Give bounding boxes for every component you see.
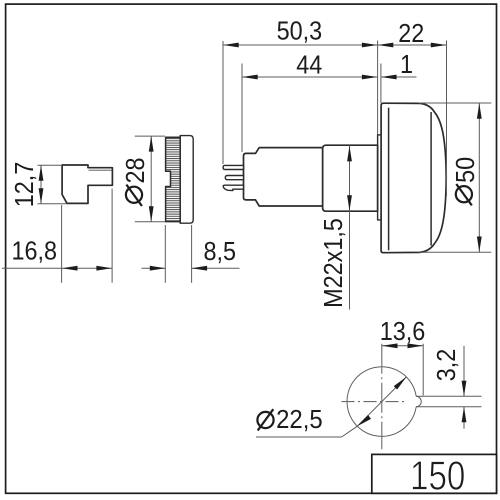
Ø22,5 diameter line <box>357 377 406 426</box>
arrow Ø28 down <box>149 206 154 222</box>
dimension 8,5 extension left <box>164 225 166 283</box>
extension line panel plane x=377.6 <box>377 41 379 135</box>
keyway slot end arc <box>416 396 421 407</box>
label Ø50 diameter symbol circle <box>456 186 472 202</box>
title block box <box>372 454 497 493</box>
svg-text:3,2: 3,2 <box>433 349 461 382</box>
dimension 1 tail <box>381 76 417 78</box>
lens inner lip line <box>388 108 390 251</box>
knurl front edge <box>179 136 181 224</box>
dimension 13,6 extension right <box>422 344 424 396</box>
label Ø28 diameter symbol circle <box>126 187 142 203</box>
extension line lens apex x=446.5 <box>446 41 448 197</box>
dimension Ø50 line <box>478 103 480 252</box>
dimension 22 line <box>378 44 447 46</box>
arrow 13,6 left <box>382 343 398 348</box>
arrow Ø28 up <box>149 136 154 152</box>
dimension 12,7 extension top <box>38 164 62 166</box>
arrow M22 down <box>347 195 352 211</box>
svg-text:M22x1,5: M22x1,5 <box>320 218 348 308</box>
lens dome <box>381 103 446 253</box>
dimension 16,8 line <box>2 267 112 269</box>
nut back disc <box>180 136 193 224</box>
thread back face line <box>322 148 324 206</box>
arrow Ø50 up <box>477 103 482 119</box>
arrow 44 right / 1 left <box>362 75 378 80</box>
arrow 13,6 right <box>408 343 424 348</box>
adapter body outline <box>62 165 112 203</box>
arrow 1 pointing left at lens back <box>381 75 397 80</box>
arrow Ø22,5 lower left <box>356 415 371 428</box>
Ø22,5 leader diagonal <box>342 426 358 437</box>
knurl upper band <box>166 137 181 171</box>
svg-text:1: 1 <box>400 51 413 79</box>
svg-text:16,8: 16,8 <box>12 237 58 265</box>
dimension Ø28 extension bottom <box>135 221 165 223</box>
svg-text:28: 28 <box>122 157 150 183</box>
dimension 3,2 lower tail with up arrow <box>463 407 465 429</box>
arrow 8,5 pointing right at left ext <box>150 266 166 271</box>
vertical centerline <box>381 344 383 450</box>
pin 1 (top) <box>223 165 243 169</box>
svg-text:8,5: 8,5 <box>203 238 236 266</box>
knurl middle band <box>171 171 181 186</box>
dimension 3,2 upper tail with down arrow <box>463 346 465 397</box>
svg-text:13,6: 13,6 <box>380 318 426 346</box>
arrow 12,7 up <box>39 165 44 181</box>
arrow Ø50 down <box>477 237 482 253</box>
arrow 3,2 down <box>462 381 467 397</box>
pin 3 (bottom, with lance) <box>223 185 243 190</box>
extension Ø50 bottom <box>419 251 491 253</box>
dimension M22 line with tail <box>349 146 351 310</box>
lens flat front face edge <box>430 112 432 246</box>
Ø22,5 leader horizontal <box>256 436 342 438</box>
dimension 8,5 tail right <box>192 267 240 269</box>
dimension 16,8 extension left <box>61 205 63 283</box>
svg-text:44: 44 <box>296 51 322 79</box>
label Ø22,5 diameter symbol slash <box>258 409 274 430</box>
main housing body <box>244 148 323 206</box>
dimension 16,8 extension right <box>111 189 113 283</box>
horizontal centerline <box>342 401 408 403</box>
arrow M22 up <box>347 146 352 162</box>
dimension Ø28 extension top <box>135 135 165 137</box>
pin 2 (middle) <box>225 176 243 180</box>
hole circle with keyway gap <box>347 367 416 437</box>
arrow Ø22,5 upper right <box>394 375 408 389</box>
dimension 50,3 line <box>223 44 378 46</box>
arrow 8,5 pointing left at right ext <box>192 266 208 271</box>
svg-text:12,7: 12,7 <box>11 162 39 208</box>
extension line pin tip x=223 <box>222 41 224 164</box>
arrow 12,7 down <box>39 188 44 204</box>
dimension 13,6 line <box>382 345 423 347</box>
dimension 12,7 extension bottom <box>38 203 67 205</box>
arrow 16,8 right <box>96 266 112 271</box>
keyway slot top edge + 3,2 extension top <box>416 395 481 397</box>
arrow 44 left <box>242 75 258 80</box>
dimension Ø28 line <box>150 136 152 222</box>
knurl profile outline <box>166 137 181 221</box>
extension line body front x=242 <box>241 64 243 153</box>
neck ring between thread and lens <box>378 135 382 220</box>
keyway slot bottom edge + 3,2 extension bottom <box>416 406 481 408</box>
label Ø22,5 diameter symbol circle <box>257 412 273 428</box>
adapter nib chamfer line <box>89 169 113 171</box>
dimension 12,7 line <box>40 165 42 204</box>
svg-text:50: 50 <box>452 157 480 183</box>
label Ø28 diameter symbol slash <box>126 185 141 206</box>
svg-text:50,3: 50,3 <box>277 18 323 46</box>
svg-text:22,5: 22,5 <box>276 405 323 434</box>
arrow 50,3 right <box>362 43 378 48</box>
dimension 44 line <box>242 76 378 78</box>
thread section M22 <box>323 145 378 211</box>
dimension 8,5 tail left <box>142 267 166 269</box>
label Ø50 diameter symbol slash <box>456 184 472 205</box>
arrow 22 left <box>378 43 394 48</box>
extension line lens back x=380.9 <box>380 64 382 104</box>
dimension 8,5 extension right <box>191 225 193 283</box>
arrow 22 right <box>431 43 447 48</box>
arrow 50,3 left <box>223 43 239 48</box>
knurl lower band <box>166 187 181 222</box>
svg-text:22: 22 <box>398 20 424 48</box>
svg-text:150: 150 <box>410 452 465 498</box>
arrow 16,8 left <box>62 266 78 271</box>
extension Ø50 top <box>419 102 491 104</box>
arrow 3,2 up <box>462 407 467 423</box>
